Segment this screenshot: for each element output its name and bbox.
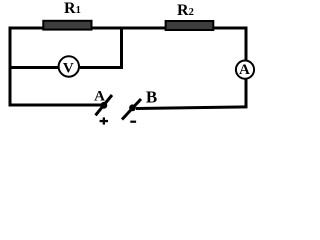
wire top — [9, 27, 248, 30]
wire right — [245, 27, 248, 109]
svg-text:R2: R2 — [177, 2, 194, 19]
svg-text:V: V — [63, 60, 74, 76]
wire bottom left — [9, 104, 103, 107]
ammeter A — [236, 61, 254, 79]
svg-text:R1: R1 — [64, 0, 81, 17]
wire bottom right — [136, 107, 248, 109]
minus sign — [130, 121, 136, 123]
plus sign — [100, 120, 108, 122]
terminal A — [94, 88, 112, 124]
voltmeter V — [59, 56, 79, 76]
wire junction vertical — [120, 27, 123, 68]
svg-text:A: A — [239, 62, 250, 78]
wire left — [9, 27, 12, 107]
wire voltmeter branch — [9, 66, 124, 69]
resistor R1 — [43, 0, 91, 30]
svg-text:A: A — [94, 88, 105, 104]
svg-text:B: B — [146, 87, 157, 106]
resistor R2 — [166, 2, 214, 30]
terminal B — [122, 87, 157, 122]
